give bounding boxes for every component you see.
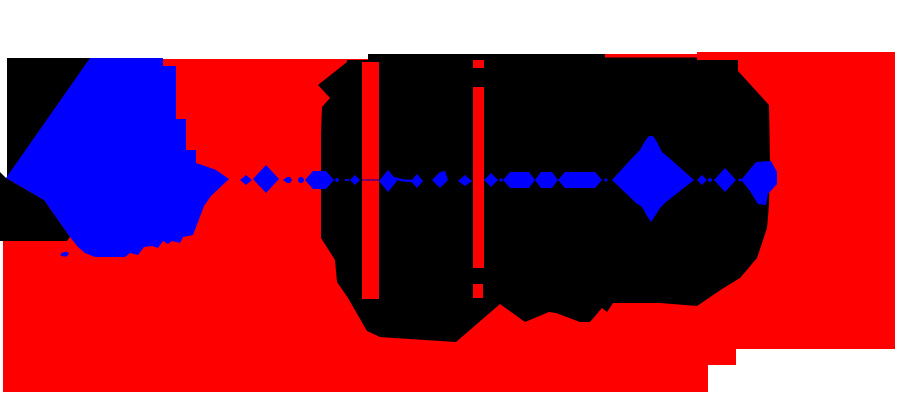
capacitor C2 plate upper (red bar 2 top) xyxy=(473,60,484,68)
wire dot xyxy=(739,179,742,182)
wire diamond xyxy=(379,170,397,192)
white bottom-right notch xyxy=(708,349,897,392)
wire diamond xyxy=(350,175,360,185)
diode D1 (big blue diamond) xyxy=(6,58,229,257)
wire diamond xyxy=(697,175,707,185)
capacitor C2 plate lower (red bar 2) xyxy=(473,87,484,268)
wire thin link xyxy=(394,178,412,181)
red top line over box right xyxy=(605,54,697,58)
wire diamond xyxy=(714,168,736,192)
black region left upper (node A area) xyxy=(7,58,93,181)
wire node diamond xyxy=(253,165,279,193)
black box (main body) xyxy=(318,54,770,342)
white left margin strip xyxy=(0,52,7,195)
wire hexagon dash xyxy=(535,172,558,188)
red top-right corner piece xyxy=(697,52,897,62)
capacitor C2 terminal dot xyxy=(473,284,483,298)
value label fleck under D1 (blue) xyxy=(60,252,69,257)
wire diamond xyxy=(240,175,252,185)
wire dot xyxy=(499,178,502,181)
wire hexagon dash long xyxy=(558,172,602,188)
black region left lower wedge xyxy=(0,172,70,241)
white right margin sliver xyxy=(895,52,900,352)
wire diamond xyxy=(432,171,448,188)
wire node diamond at C2 xyxy=(484,173,498,187)
red backdrop plane xyxy=(3,59,897,392)
node C blue diamond xyxy=(741,161,777,205)
wire diamond xyxy=(411,174,423,188)
wire hexagon node xyxy=(305,171,334,189)
wire crossing over C1 xyxy=(362,179,379,181)
capacitor C1 plate (red bar 1) xyxy=(362,62,379,299)
wire dot xyxy=(298,177,304,183)
wire dot xyxy=(604,178,607,181)
wire dash xyxy=(345,179,349,181)
wire dot xyxy=(335,178,339,182)
wire hexagon dash xyxy=(503,172,535,188)
wire hexagon dash xyxy=(283,177,292,183)
node B big blue diamond with spikes xyxy=(612,136,694,222)
wire diamond xyxy=(458,175,472,186)
wire dot xyxy=(708,178,712,182)
